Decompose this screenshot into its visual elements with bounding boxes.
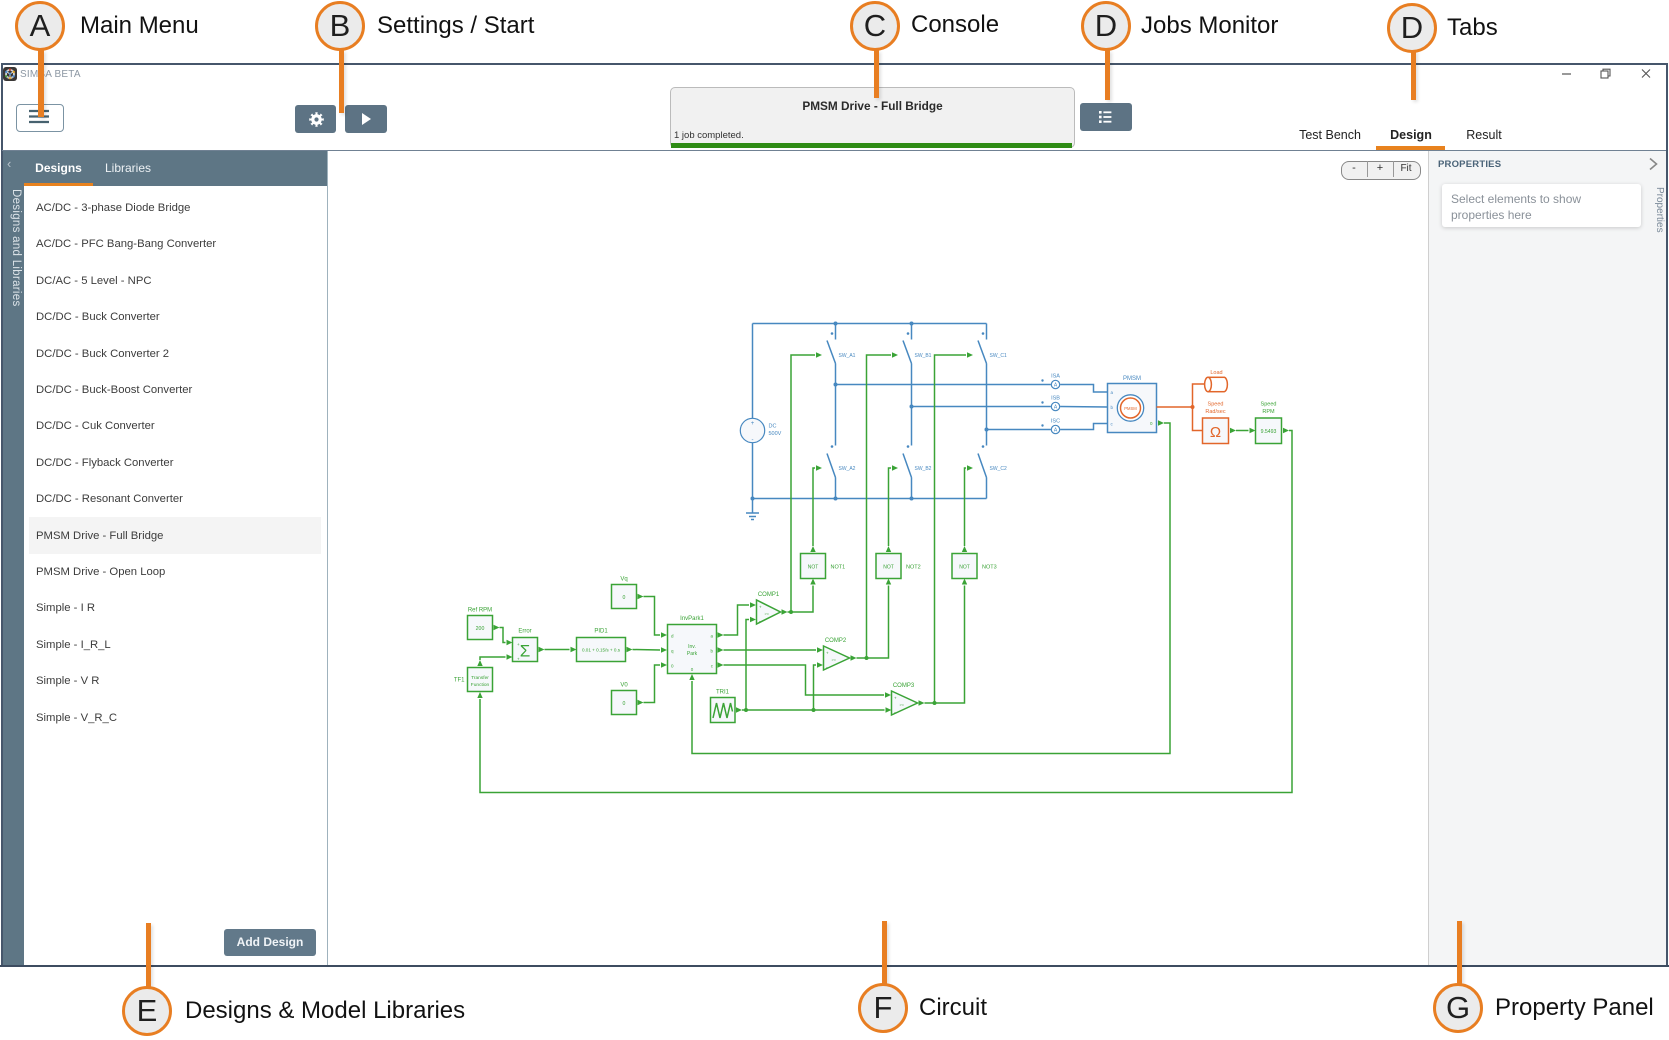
- svg-text:ISA: ISA: [1051, 374, 1060, 380]
- svg-text:Rad/sec: Rad/sec: [1205, 409, 1225, 415]
- callouts: [0, 0, 1669, 1]
- svg-text:Inv.: Inv.: [688, 644, 696, 650]
- wire TRI1 carrier: [742, 709, 885, 711]
- node COMP3 output junction: [933, 701, 937, 705]
- svg-text:NOT: NOT: [883, 565, 894, 571]
- comparator COMP1: [757, 592, 781, 624]
- svg-text:SW_B1: SW_B1: [915, 353, 932, 359]
- svg-text:500V: 500V: [769, 431, 782, 437]
- wire bottom DC bus: [753, 498, 987, 500]
- svg-text:Σ: Σ: [520, 642, 531, 661]
- pin InvPark a output: [718, 632, 724, 637]
- wire left bus upper: [752, 324, 754, 419]
- svg-text:ISC: ISC: [1051, 419, 1060, 425]
- wire NOT3 to SW_C2 gate: [965, 468, 967, 546]
- pin COMP3 output: [919, 700, 925, 705]
- node phase A junction: [834, 383, 838, 387]
- svg-text:Park: Park: [687, 651, 698, 657]
- PID controller PID1: [577, 629, 626, 662]
- gain Speed RPM 9.5493: [1256, 402, 1282, 444]
- svg-text:>=: >=: [832, 658, 837, 662]
- pin PID1 output: [627, 647, 633, 652]
- inverter NOT1: [801, 554, 846, 579]
- inverter NOT3: [952, 554, 997, 579]
- comparator COMP3: [892, 683, 918, 715]
- pin Error output: [539, 647, 545, 652]
- speed sensor Speed Rad/sec: [1203, 402, 1229, 444]
- wire phase A: [836, 384, 1051, 386]
- constant Ref RPM 200: [468, 608, 493, 640]
- svg-text:COMP3: COMP3: [893, 683, 915, 689]
- switch SW_C2: [978, 430, 1007, 499]
- svg-text:PMSM: PMSM: [1124, 406, 1137, 411]
- node carrier junction 2: [812, 708, 816, 712]
- svg-text:+: +: [894, 696, 897, 701]
- svg-text:NOT1: NOT1: [831, 565, 846, 571]
- app icon: [3, 67, 17, 81]
- wire PMSM shaft out: [1157, 406, 1193, 408]
- pin NOT3 output: [962, 546, 967, 552]
- node COMP1 output junction: [789, 610, 793, 614]
- svg-text:NOT3: NOT3: [982, 565, 997, 571]
- wire phase B to motor: [1060, 406, 1107, 409]
- pin V0 output: [638, 700, 644, 705]
- svg-text:SW_A1: SW_A1: [839, 353, 856, 359]
- svg-text:SW_C1: SW_C1: [990, 353, 1007, 359]
- wire PID1 to InvPark q: [633, 649, 661, 652]
- wire top DC bus: [753, 323, 987, 325]
- wire Vq to InvPark d: [644, 597, 661, 636]
- svg-text:Load: Load: [1210, 370, 1222, 376]
- node top bus / SW_A1 junction: [834, 322, 838, 326]
- wire carrier to COMP1 minus: [746, 620, 749, 711]
- ammeter ISC: [1041, 419, 1060, 434]
- switch SW_B2: [903, 407, 932, 499]
- svg-text:COMP1: COMP1: [758, 592, 780, 598]
- pin NOT1 output: [810, 546, 815, 552]
- wire COMP2 to SW_B1 gate: [857, 355, 892, 658]
- svg-text:Transfer: Transfer: [471, 675, 489, 681]
- constant V0 0: [612, 683, 637, 715]
- svg-text:V0: V0: [620, 683, 628, 689]
- node bottom bus / SW_A2 junction: [834, 497, 838, 501]
- pin TF1 output: [477, 660, 482, 666]
- voltage source DC1: [740, 418, 764, 443]
- svg-text:>=: >=: [765, 612, 770, 616]
- wire b to COMP2: [724, 649, 817, 651]
- wire phase C to motor: [1060, 424, 1107, 430]
- svg-text:+: +: [826, 651, 829, 656]
- svg-text:Function: Function: [471, 682, 490, 688]
- svg-text:NOT: NOT: [808, 565, 819, 571]
- node bottom bus / source junction: [751, 497, 755, 501]
- svg-text:TRI1: TRI1: [716, 690, 730, 696]
- property panel: [1438, 159, 1501, 170]
- svg-text:Vq: Vq: [620, 577, 627, 583]
- svg-text:RPM: RPM: [1262, 409, 1275, 415]
- wire COMP1 to SW_A1 gate: [788, 355, 816, 612]
- wire shaft to load: [1193, 384, 1206, 407]
- svg-text:DC: DC: [769, 424, 777, 430]
- svg-text:Ref RPM: Ref RPM: [468, 608, 492, 614]
- pin speed sensor output: [1230, 428, 1236, 433]
- pin NOT2 output: [886, 546, 891, 552]
- node carrier junction 1: [744, 708, 748, 712]
- switch SW_A2: [827, 385, 856, 499]
- svg-text:COMP2: COMP2: [825, 638, 847, 644]
- wire speed feedback: [480, 431, 1292, 793]
- node phase C junction: [985, 428, 989, 432]
- switch SW_C1: [978, 324, 1007, 430]
- constant Vq 0: [612, 577, 637, 609]
- zoom control: [1341, 161, 1421, 180]
- svg-text:+: +: [517, 642, 520, 647]
- value label DC 500V: [769, 424, 782, 438]
- svg-text:PID1: PID1: [594, 629, 608, 635]
- wire TF1 to Error: [480, 657, 506, 660]
- triangle generator TRI1: [711, 690, 736, 723]
- svg-text:ISB: ISB: [1051, 396, 1060, 402]
- jobs monitor button: [1080, 103, 1132, 131]
- wire COMP1 to NOT1: [791, 586, 813, 613]
- svg-text:+: +: [751, 421, 755, 427]
- svg-text:>=: >=: [900, 703, 905, 707]
- pin PMSM theta output: [1158, 420, 1164, 425]
- svg-text:200: 200: [476, 626, 485, 632]
- pin Vq output: [638, 594, 644, 599]
- load Load: [1205, 370, 1228, 392]
- window chrome: [1, 63, 1667, 65]
- svg-text:SW_A2: SW_A2: [839, 466, 856, 472]
- node shaft junction: [1191, 405, 1195, 409]
- wire a to COMP1: [724, 605, 750, 635]
- wire COMP3 to SW_C1 gate: [925, 355, 967, 703]
- svg-text:TF1: TF1: [454, 678, 465, 684]
- wire speed to rpm gain: [1236, 430, 1249, 432]
- svg-text:Speed: Speed: [1261, 402, 1277, 408]
- wire COMP3 to NOT3: [935, 586, 965, 704]
- svg-text:9.5493: 9.5493: [1261, 429, 1277, 435]
- svg-text:SW_B2: SW_B2: [915, 466, 932, 472]
- svg-text:NOT: NOT: [959, 565, 970, 571]
- wire V0 to InvPark 0: [644, 665, 661, 703]
- svg-text:Error: Error: [518, 629, 531, 635]
- svg-text:0: 0: [623, 701, 626, 707]
- wire NOT1 to SW_A2 gate: [813, 468, 815, 546]
- node COMP2 output junction: [865, 656, 869, 660]
- wire Error to PID1: [545, 649, 570, 651]
- svg-text:NOT2: NOT2: [906, 565, 921, 571]
- svg-text:SW_C2: SW_C2: [990, 466, 1007, 472]
- svg-text:Ω: Ω: [1210, 424, 1221, 441]
- transform InvPark1: [668, 616, 717, 674]
- switch SW_A1: [827, 324, 856, 385]
- comparator COMP2: [824, 638, 850, 670]
- wire COMP2 to NOT2: [867, 586, 889, 659]
- toolbar buttons: [16, 104, 64, 132]
- svg-text:InvPark1: InvPark1: [680, 616, 704, 622]
- svg-text:+: +: [759, 605, 762, 610]
- summer Error: [513, 629, 538, 662]
- wire theta feedback: [692, 423, 1170, 754]
- ammeter ISB: [1041, 396, 1060, 411]
- sidebar: [3, 151, 25, 965]
- svg-text:PMSM: PMSM: [1123, 376, 1141, 382]
- wire shaft to speed sensor: [1193, 407, 1203, 431]
- console: [670, 87, 1075, 148]
- ground: [746, 499, 759, 520]
- switch SW_B1: [903, 324, 932, 407]
- tabs: [1296, 128, 1364, 142]
- wire phase A to motor: [1060, 385, 1107, 393]
- wire carrier to COMP2 minus: [814, 665, 817, 710]
- wire phase B: [912, 406, 1051, 408]
- transfer function TF1: [454, 668, 493, 692]
- node bottom bus / SW_B2 junction: [910, 497, 914, 501]
- svg-text:0.01 + 0.15/s + 0.s: 0.01 + 0.15/s + 0.s: [582, 648, 621, 653]
- pin COMP2 output: [851, 655, 857, 660]
- svg-text:+: +: [517, 657, 520, 662]
- pin InvPark b output: [718, 647, 724, 652]
- pin Ref RPM output: [494, 625, 500, 630]
- wire c to COMP3: [724, 665, 885, 695]
- wire Ref RPM to Error: [500, 628, 506, 643]
- node top bus / SW_B1 junction: [910, 322, 914, 326]
- window controls: [1556, 66, 1656, 82]
- node phase B junction: [910, 405, 914, 409]
- inverter NOT2: [876, 554, 921, 579]
- wire NOT2 to SW_B2 gate: [889, 468, 892, 546]
- svg-text:Speed: Speed: [1208, 402, 1224, 408]
- ammeter ISA: [1041, 374, 1060, 389]
- wire left bus lower: [752, 443, 754, 499]
- pin TRI1 output: [736, 707, 742, 712]
- svg-text:-: -: [752, 438, 754, 444]
- pin InvPark c output: [718, 662, 724, 667]
- pin COMP1 output: [782, 609, 788, 614]
- motor PMSM: [1108, 376, 1157, 433]
- pin rpm gain output: [1283, 428, 1289, 433]
- wire phase C: [987, 429, 1051, 431]
- svg-text:0: 0: [623, 595, 626, 601]
